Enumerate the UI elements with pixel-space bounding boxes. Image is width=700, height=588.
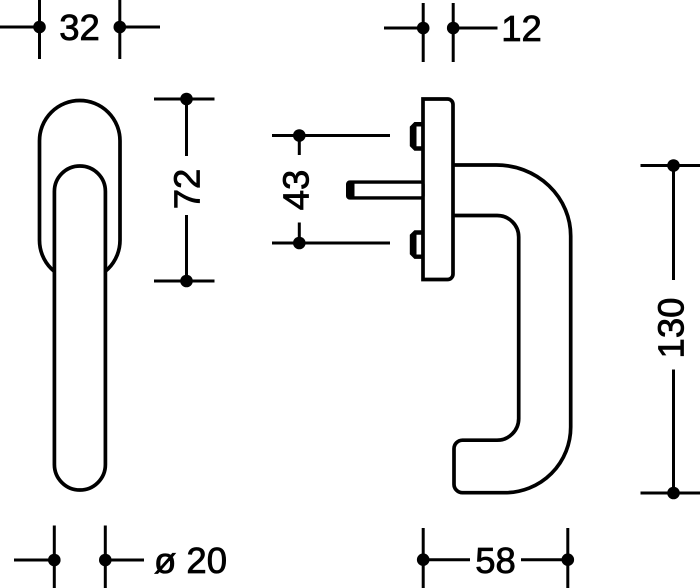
dim 12: left extension line <box>384 27 423 30</box>
dim diameter 20: left dot <box>48 554 61 567</box>
dim 43: top dot <box>293 129 306 142</box>
spindle <box>348 182 423 198</box>
dim 12: right witness line <box>452 3 455 62</box>
dim diameter 20: right witness line <box>104 526 107 588</box>
dim 43: bottom dot <box>293 237 306 250</box>
dim 130: dimension line upper segment <box>672 166 675 281</box>
dim 12: left dot <box>417 22 430 35</box>
dim diameter 20: left witness line <box>53 526 56 588</box>
dim 58: right dot <box>562 553 575 566</box>
dim 72: dimension line upper segment <box>185 99 188 156</box>
dim 72: top dot <box>180 93 193 106</box>
dim 72: top extension line <box>154 98 215 101</box>
dim 130: bottom extension line <box>641 492 700 495</box>
dim 12: left witness line <box>422 3 425 62</box>
dim 32: right witness line <box>118 0 121 59</box>
dim 72: bottom extension line <box>154 280 215 283</box>
dim diameter 20: right dot <box>99 554 112 567</box>
rosette plate side view <box>423 99 453 280</box>
svg-text:58: 58 <box>475 540 516 581</box>
dim 58: right witness line <box>566 528 569 588</box>
dim diameter 20: right extension line <box>105 559 144 562</box>
dim 32: left witness line <box>38 0 41 59</box>
fixing clip top <box>410 122 423 151</box>
dim 130: top dot <box>667 159 680 172</box>
dim 72: dimension line lower segment <box>185 215 188 281</box>
svg-text:43: 43 <box>276 170 317 211</box>
dim 72: bottom dot <box>180 275 193 288</box>
dim 43: bottom extension line <box>272 242 390 245</box>
spindle end cap <box>346 181 355 200</box>
svg-text:130: 130 <box>651 298 692 359</box>
dim 43: top extension line <box>272 134 390 137</box>
dim 58: right dimension line segment <box>521 558 568 561</box>
svg-text:ø 20: ø 20 <box>154 540 227 581</box>
svg-text:72: 72 <box>167 169 208 210</box>
dim diameter 20: left extension line <box>14 559 54 562</box>
dim 43: dimension line upper segment <box>298 136 301 156</box>
dim 58: left dimension line segment <box>423 558 470 561</box>
fixing clip bottom <box>410 230 423 259</box>
dim 32: right dot <box>114 21 127 34</box>
handle side view <box>453 165 571 493</box>
dim 32: left dot <box>33 21 46 34</box>
svg-text:32: 32 <box>59 7 100 48</box>
handle grip front view (inner stadium) <box>54 166 105 490</box>
dim 32: right extension line <box>120 26 160 29</box>
dim 12: right extension line <box>453 27 497 30</box>
dim 58: left dot <box>417 553 430 566</box>
dim 58: left witness line <box>422 528 425 588</box>
dim 12: right dot <box>447 22 460 35</box>
rosette front view (outer stadium) <box>40 101 121 281</box>
dim 130: top extension line <box>641 164 700 167</box>
dim 130: dimension line lower segment <box>672 370 675 494</box>
dim 130: bottom dot <box>667 487 680 500</box>
svg-text:12: 12 <box>501 8 542 49</box>
dim 43: dimension line lower segment <box>298 223 301 244</box>
dim 32: left extension line <box>0 26 40 29</box>
